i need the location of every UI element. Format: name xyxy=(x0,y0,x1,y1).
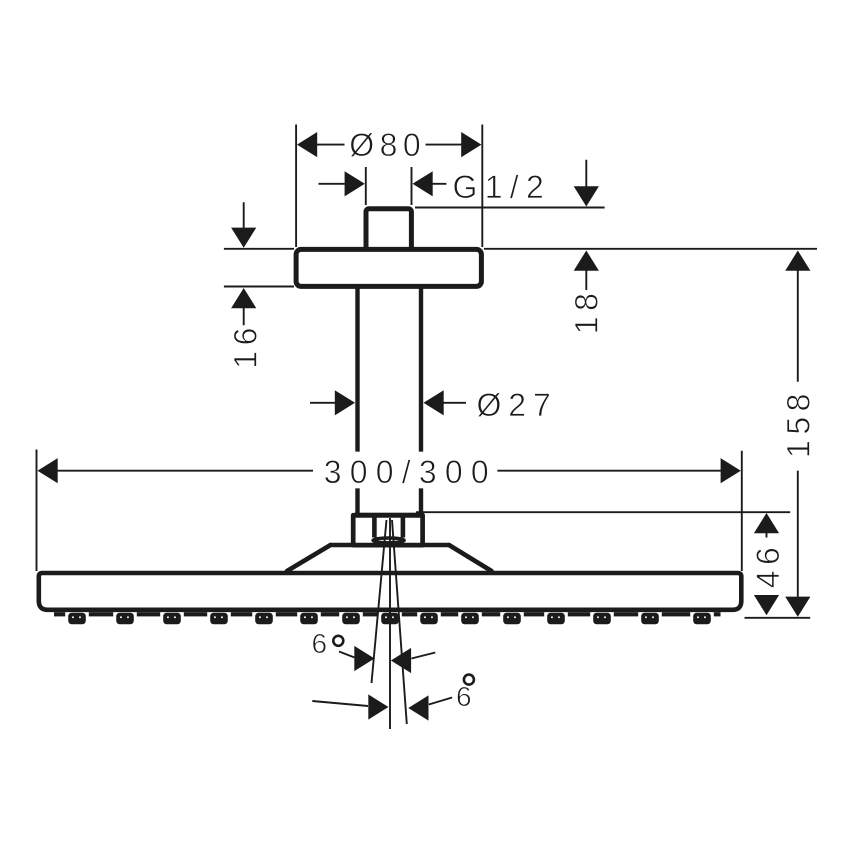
svg-text:Ø27: Ø27 xyxy=(477,387,558,423)
arrow 46 bottom xyxy=(754,595,779,615)
dim O80 extension right xyxy=(481,125,483,248)
svg-text:46: 46 xyxy=(750,542,786,589)
arrow 158 top xyxy=(785,251,810,271)
ceiling line left xyxy=(224,248,294,250)
square top reference line xyxy=(415,207,605,209)
dim 18 leader xyxy=(585,160,587,290)
arrow 16 upper xyxy=(231,228,256,248)
nut outlet ellipse xyxy=(373,538,404,543)
arrow O80 left xyxy=(297,132,317,157)
nozzle strip xyxy=(54,612,721,624)
ceiling line right xyxy=(484,248,817,250)
arrow angle lower-right xyxy=(408,695,428,720)
svg-text:300/300: 300/300 xyxy=(324,454,497,490)
arrow 16 lower xyxy=(231,288,256,308)
arrow angle upper-left xyxy=(354,646,374,671)
arrow 18 lower xyxy=(574,251,599,271)
arrow G1/2 right xyxy=(413,171,433,196)
pipe right wall xyxy=(419,289,423,514)
trapezoid escutcheon dome xyxy=(287,545,492,571)
svg-text:6: 6 xyxy=(312,628,328,659)
angle leader lower left xyxy=(312,701,368,706)
dim G1/2 extension right xyxy=(411,167,413,205)
arrow G1/2 left xyxy=(345,171,365,196)
collar top bar xyxy=(355,513,421,518)
angle leader upper right xyxy=(411,653,435,659)
dim G1/2 extension left xyxy=(365,167,367,205)
arrow 18 upper xyxy=(574,186,599,206)
nub dots xyxy=(72,616,74,618)
arrowheads xyxy=(38,132,811,721)
nozzle face bar segments xyxy=(54,612,65,616)
dim 300/300 extension right xyxy=(741,451,743,571)
arrow angle upper-right xyxy=(391,648,411,673)
dim G1/2 line xyxy=(319,183,447,185)
pipe left wall xyxy=(355,289,359,514)
arrow O27 right xyxy=(424,390,444,415)
nozzle bottom reference line xyxy=(745,617,811,619)
dim 16 leader xyxy=(243,202,245,325)
svg-text:16: 16 xyxy=(227,322,263,369)
nozzle nubs xyxy=(68,613,86,624)
svg-text:Ø80: Ø80 xyxy=(349,127,426,163)
dim 300/300 line xyxy=(58,470,721,472)
collar body xyxy=(353,515,422,545)
dim O27 line xyxy=(310,402,466,404)
spray right 6deg line xyxy=(392,520,407,724)
arrow 300 right xyxy=(721,458,741,483)
dim 300/300 extension left xyxy=(36,450,38,572)
svg-text:G1/2: G1/2 xyxy=(453,169,552,205)
arrow O27 left xyxy=(335,390,355,415)
dim 46 line xyxy=(766,533,768,538)
nut inner walls xyxy=(374,518,403,538)
arrow 300 left xyxy=(38,458,58,483)
svg-text:18: 18 xyxy=(569,288,605,335)
G1/2 square connector xyxy=(366,209,411,251)
dim 158 line xyxy=(797,271,799,597)
ceiling flange xyxy=(296,249,481,286)
arrow 46 top xyxy=(754,513,779,533)
shower head body xyxy=(39,573,742,610)
angle leader upper left xyxy=(339,652,355,658)
dim 46 top reference line xyxy=(416,511,790,513)
spray centre line xyxy=(389,518,391,729)
arrow 158 bottom xyxy=(785,597,810,617)
spray left 6deg line xyxy=(372,520,387,683)
flange bottom reference line xyxy=(224,286,294,288)
dim O80 extension left xyxy=(295,125,297,248)
mask 300/300 xyxy=(318,452,497,488)
angle leader lower right xyxy=(429,698,452,705)
dim O80 line xyxy=(317,144,461,146)
svg-text:158: 158 xyxy=(780,388,816,458)
arrow O80 right xyxy=(461,132,481,157)
arrow angle lower-left xyxy=(368,694,388,719)
